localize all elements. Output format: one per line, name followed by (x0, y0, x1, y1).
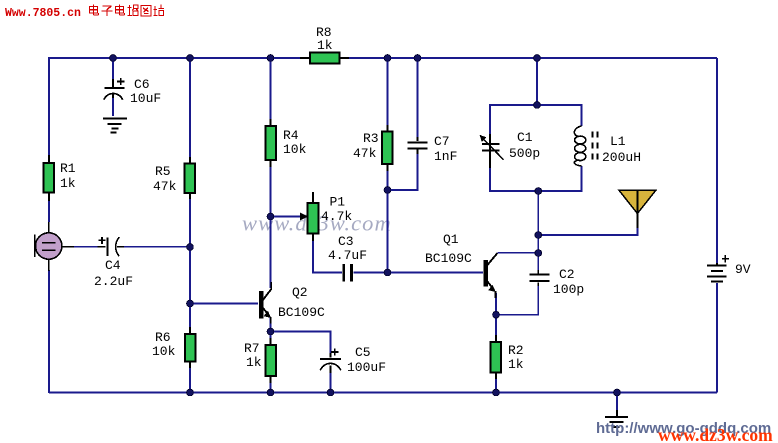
node bottom rail R7 (267, 389, 274, 396)
header site text chinese (90, 5, 165, 17)
wire R3 to node (387, 170, 389, 190)
wire Q2 emitter to node (270, 317, 272, 332)
wire antenna node to collector node (537, 235, 539, 253)
wire right rail battery to bottom (716, 283, 718, 393)
svg-text:R1: R1 (60, 161, 76, 176)
node bottom rail R2 (493, 389, 500, 396)
svg-text:2.2uF: 2.2uF (94, 274, 133, 289)
node bottom rail C5 (327, 389, 334, 396)
svg-text:500p: 500p (509, 146, 540, 161)
transistor Q1 (425, 232, 497, 298)
wire R6 to bottom rail (189, 367, 191, 393)
wire R2 to bottom rail (495, 378, 497, 393)
capacitor C4 (94, 237, 133, 289)
wire C6 branch (112, 58, 114, 80)
wire tank feed from top rail (536, 58, 538, 105)
wire left rail upper (48, 57, 50, 155)
wire top rail left of R8 (49, 57, 301, 59)
wire R7 stub (270, 332, 272, 340)
wire R4 to wiper node (270, 166, 272, 217)
wire R5 to C4 node (189, 198, 191, 247)
svg-text:4.7k: 4.7k (321, 209, 352, 224)
wire left rail R1 to mic (48, 200, 50, 222)
svg-text:BC109C: BC109C (425, 251, 472, 266)
svg-text:Q2: Q2 (292, 285, 308, 300)
transistor Q2 (259, 282, 325, 324)
svg-text:C1: C1 (517, 130, 533, 145)
svg-text:R4: R4 (283, 128, 299, 143)
svg-text:R6: R6 (155, 330, 171, 345)
wire wiper node to Q2 collector (270, 217, 272, 289)
node top rail R3 (384, 55, 391, 62)
wire C6 ground stub (112, 97, 114, 116)
wire R7 to bottom rail (270, 382, 272, 393)
node top rail R5 (187, 55, 194, 62)
resistor R7 (244, 338, 276, 383)
svg-text:1k: 1k (60, 176, 76, 191)
svg-text:1nF: 1nF (434, 149, 457, 164)
svg-text:R7: R7 (244, 341, 260, 356)
node C3 base junction (384, 269, 391, 276)
resistor R3 (353, 125, 393, 171)
wire Q2 base node to R6 (189, 304, 191, 329)
node C4 R5 junction (187, 244, 194, 251)
svg-text:C2: C2 (559, 267, 575, 282)
svg-text:Www.7805.cn: Www.7805.cn (5, 7, 81, 20)
capacitor C5 (320, 345, 386, 375)
wire C5 to bottom rail (330, 372, 332, 393)
svg-text:www.dz3w.com: www.dz3w.com (658, 425, 773, 443)
svg-text:L1: L1 (610, 134, 626, 149)
svg-text:C4: C4 (105, 258, 121, 273)
node Q1 emitter junction (493, 311, 500, 318)
svg-text:10k: 10k (152, 344, 176, 359)
wire R3 node to C3 node (387, 190, 389, 273)
node R3 C7 junction (384, 187, 391, 194)
capacitor C2 (529, 267, 584, 297)
wire antenna horizontal (538, 227, 637, 235)
wire mic to C4 (73, 246, 98, 248)
resistor R1 (44, 155, 76, 201)
node top rail C6 (110, 55, 117, 62)
wire right rail upper to battery (716, 58, 718, 263)
svg-text:9V: 9V (735, 262, 751, 277)
wire C7 column top (417, 58, 419, 138)
wire Q1 emitter to node (495, 293, 497, 315)
node wiper junction (267, 213, 274, 220)
node Q2 base junction (187, 300, 194, 307)
svg-text:P1: P1 (330, 195, 346, 210)
inductor L1 (574, 126, 641, 166)
svg-text:47k: 47k (353, 146, 377, 161)
svg-text:C3: C3 (338, 234, 354, 249)
resistor R8 (300, 25, 349, 64)
svg-text:47k: 47k (153, 179, 177, 194)
wire R5 column top (189, 58, 191, 158)
wire left rail mic to bottom (48, 270, 50, 393)
wire collector node to C2 top (537, 253, 539, 272)
wire Q2 base (190, 303, 258, 305)
wire ground stub (616, 393, 618, 415)
svg-text:C6: C6 (134, 77, 150, 92)
svg-text:1k: 1k (317, 38, 333, 53)
capacitor C3 (328, 234, 367, 282)
wire Q1 collector to tank column (498, 252, 539, 254)
wire P1 bottom to C3 (313, 240, 342, 273)
svg-text:200uH: 200uH (602, 150, 641, 165)
ground main (605, 410, 628, 427)
wire C7 bottom to R3 node (388, 153, 418, 190)
svg-text:R3: R3 (363, 131, 379, 146)
svg-text:10uF: 10uF (130, 91, 161, 106)
svg-text:R5: R5 (155, 164, 171, 179)
wire top rail right of R8 (348, 57, 717, 59)
svg-text:R2: R2 (508, 343, 524, 358)
microphone MIC (35, 222, 74, 271)
ground C6 (103, 119, 127, 133)
wire C4 to R5 node (124, 246, 190, 248)
svg-text:4.7uF: 4.7uF (328, 248, 367, 263)
resistor R6 (152, 327, 196, 368)
node bottom rail ground (614, 389, 621, 396)
node top rail C7 (414, 55, 421, 62)
tank box (490, 105, 582, 191)
node top rail tank (534, 55, 541, 62)
node antenna junction (535, 232, 542, 239)
wire Q2 emitter node to C5 (271, 332, 331, 355)
svg-text:100uF: 100uF (347, 360, 386, 375)
wire emitter node to C2 bottom (496, 283, 538, 315)
svg-text:BC109C: BC109C (278, 305, 325, 320)
node bottom rail R6 (187, 389, 194, 396)
variable capacitor C1 (480, 130, 541, 168)
wire C3 to R3 node (354, 272, 388, 274)
svg-text:10k: 10k (283, 142, 307, 157)
node tank top (534, 102, 541, 109)
resistor R4 (266, 119, 307, 167)
capacitor C6 (104, 77, 161, 106)
wire Q1 base (388, 272, 484, 274)
antenna (619, 190, 656, 228)
resistor R2 (491, 335, 524, 379)
svg-text:1k: 1k (508, 357, 524, 372)
node Q1 collector junction (535, 250, 542, 257)
svg-text:Q1: Q1 (443, 232, 459, 247)
resistor R5 (153, 157, 195, 199)
node top rail R4 (267, 55, 274, 62)
node Q2 emitter junction (267, 328, 274, 335)
wire R4 column top (270, 58, 272, 120)
wire tank bottom to antenna node (537, 191, 539, 235)
potentiometer P1 (271, 192, 352, 241)
node tank bottom (535, 188, 542, 195)
wire R3 column top (387, 58, 389, 126)
wire bottom rail (49, 392, 717, 394)
svg-text:1k: 1k (246, 355, 262, 370)
wire R2 top (495, 315, 497, 336)
svg-text:100p: 100p (553, 282, 584, 297)
wire C4 node to Q2 base node (189, 247, 191, 304)
svg-text:C5: C5 (355, 345, 371, 360)
svg-text:C7: C7 (434, 134, 450, 149)
capacitor C7 (408, 134, 458, 164)
battery B1 9V (707, 255, 751, 282)
